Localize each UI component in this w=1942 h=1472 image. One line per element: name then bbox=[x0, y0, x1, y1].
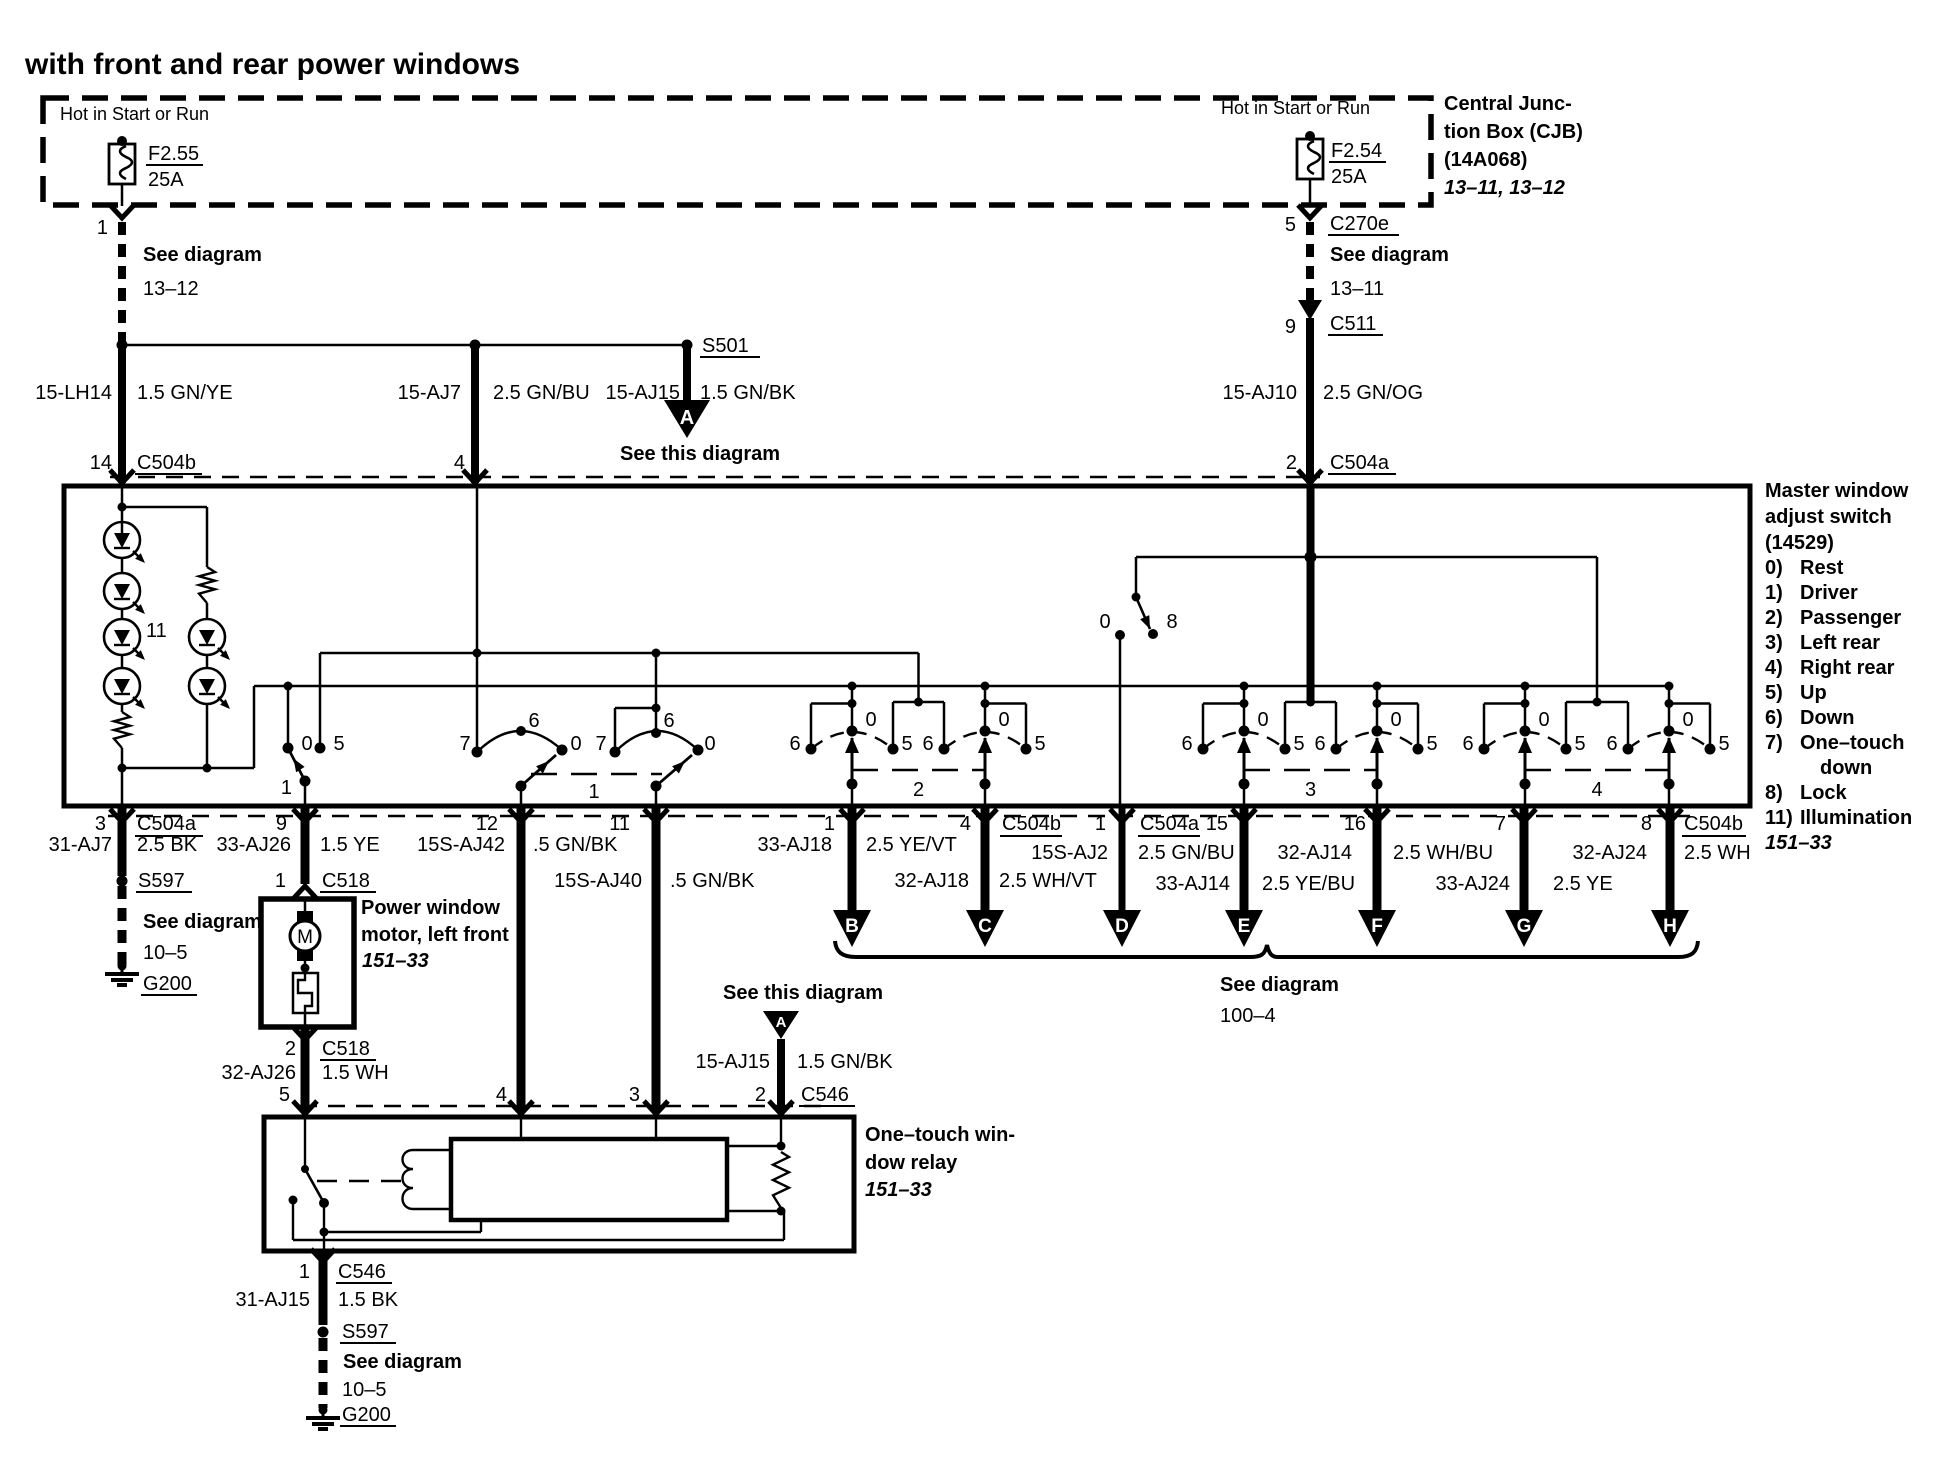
svg-text:8): 8) bbox=[1765, 782, 1783, 804]
svg-text:Down: Down bbox=[1800, 707, 1854, 729]
svg-text:1: 1 bbox=[97, 217, 108, 239]
svg-text:6: 6 bbox=[663, 710, 674, 732]
svg-text:2: 2 bbox=[755, 1084, 766, 1106]
svg-text:Central Junc-: Central Junc- bbox=[1444, 93, 1572, 115]
svg-text:C270e: C270e bbox=[1330, 213, 1389, 235]
svg-text:13–11: 13–11 bbox=[1330, 278, 1384, 300]
svg-text:2.5 BK: 2.5 BK bbox=[137, 834, 198, 856]
svg-text:11: 11 bbox=[146, 620, 167, 642]
svg-text:One–touch win-: One–touch win- bbox=[865, 1124, 1015, 1146]
svg-text:15-LH14: 15-LH14 bbox=[35, 382, 112, 404]
svg-text:adjust switch: adjust switch bbox=[1765, 506, 1892, 528]
svg-text:C546: C546 bbox=[338, 1261, 386, 1283]
svg-text:5: 5 bbox=[1718, 733, 1729, 755]
svg-text:2): 2) bbox=[1765, 607, 1783, 629]
svg-text:F: F bbox=[1371, 916, 1383, 937]
svg-text:See diagram: See diagram bbox=[143, 244, 262, 266]
svg-text:6: 6 bbox=[1606, 733, 1617, 755]
svg-text:9: 9 bbox=[1285, 316, 1296, 338]
svg-text:C518: C518 bbox=[322, 870, 370, 892]
svg-text:Driver: Driver bbox=[1800, 582, 1858, 604]
svg-text:2.5 GN/BU: 2.5 GN/BU bbox=[493, 382, 590, 404]
svg-text:8: 8 bbox=[1166, 611, 1177, 633]
svg-text:G200: G200 bbox=[143, 973, 192, 995]
svg-text:2.5 GN/BU: 2.5 GN/BU bbox=[1138, 842, 1235, 864]
svg-text:7: 7 bbox=[1495, 813, 1506, 835]
svg-text:1): 1) bbox=[1765, 582, 1783, 604]
svg-text:3: 3 bbox=[1305, 779, 1316, 801]
svg-text:13–12: 13–12 bbox=[143, 278, 199, 300]
svg-text:10–5: 10–5 bbox=[143, 942, 188, 964]
svg-text:5: 5 bbox=[1034, 733, 1045, 755]
svg-text:One–touch: One–touch bbox=[1800, 732, 1904, 754]
svg-text:12: 12 bbox=[476, 813, 498, 835]
svg-text:151–33: 151–33 bbox=[362, 950, 429, 972]
svg-text:100–4: 100–4 bbox=[1220, 1005, 1276, 1027]
svg-text:25A: 25A bbox=[1331, 166, 1367, 188]
svg-text:151–33: 151–33 bbox=[1765, 832, 1832, 854]
svg-text:15: 15 bbox=[1206, 813, 1228, 835]
svg-text:C504a: C504a bbox=[1330, 452, 1390, 474]
svg-text:6: 6 bbox=[789, 733, 800, 755]
svg-text:4): 4) bbox=[1765, 657, 1783, 679]
svg-text:C504b: C504b bbox=[137, 452, 196, 474]
svg-text:1.5 BK: 1.5 BK bbox=[338, 1289, 399, 1311]
svg-text:15-AJ10: 15-AJ10 bbox=[1223, 382, 1298, 404]
svg-text:M: M bbox=[297, 927, 313, 948]
svg-text:1: 1 bbox=[824, 813, 835, 835]
svg-text:A: A bbox=[776, 1014, 787, 1031]
svg-text:0: 0 bbox=[1538, 709, 1549, 731]
svg-text:Right rear: Right rear bbox=[1800, 657, 1895, 679]
svg-text:25A: 25A bbox=[148, 169, 184, 191]
svg-text:2.5 WH/BU: 2.5 WH/BU bbox=[1393, 842, 1493, 864]
svg-text:31-AJ7: 31-AJ7 bbox=[49, 834, 112, 856]
svg-text:Illumination: Illumination bbox=[1800, 807, 1912, 829]
svg-text:3): 3) bbox=[1765, 632, 1783, 654]
svg-text:0: 0 bbox=[998, 709, 1009, 731]
svg-text:16: 16 bbox=[1344, 813, 1366, 835]
svg-text:7): 7) bbox=[1765, 732, 1783, 754]
svg-text:32-AJ14: 32-AJ14 bbox=[1278, 842, 1353, 864]
svg-text:5: 5 bbox=[1285, 214, 1296, 236]
svg-text:(14529): (14529) bbox=[1765, 532, 1834, 554]
svg-text:See this diagram: See this diagram bbox=[620, 443, 780, 465]
svg-text:E: E bbox=[1238, 916, 1251, 937]
svg-text:1: 1 bbox=[275, 870, 286, 892]
svg-text:S597: S597 bbox=[342, 1321, 389, 1343]
svg-text:9: 9 bbox=[276, 813, 287, 835]
svg-text:4: 4 bbox=[1591, 779, 1602, 801]
svg-text:5: 5 bbox=[901, 733, 912, 755]
svg-text:S501: S501 bbox=[702, 335, 749, 357]
svg-text:5: 5 bbox=[1293, 733, 1304, 755]
svg-text:2.5 WH/VT: 2.5 WH/VT bbox=[999, 870, 1097, 892]
svg-text:1.5 WH: 1.5 WH bbox=[322, 1062, 389, 1084]
svg-text:2.5 YE/VT: 2.5 YE/VT bbox=[866, 834, 957, 856]
svg-text:Master window: Master window bbox=[1765, 480, 1909, 502]
svg-text:H: H bbox=[1663, 916, 1677, 937]
svg-text:C504a: C504a bbox=[1140, 813, 1200, 835]
svg-text:0: 0 bbox=[1257, 709, 1268, 731]
svg-text:15-AJ7: 15-AJ7 bbox=[398, 382, 461, 404]
svg-text:.5 GN/BK: .5 GN/BK bbox=[533, 834, 618, 856]
svg-text:See diagram: See diagram bbox=[143, 911, 262, 933]
svg-text:15S-AJ42: 15S-AJ42 bbox=[417, 834, 505, 856]
svg-text:2.5 YE/BU: 2.5 YE/BU bbox=[1262, 873, 1355, 895]
svg-text:6: 6 bbox=[528, 710, 539, 732]
svg-text:6): 6) bbox=[1765, 707, 1783, 729]
svg-text:0: 0 bbox=[570, 733, 581, 755]
svg-text:8: 8 bbox=[1641, 813, 1652, 835]
svg-text:2: 2 bbox=[285, 1038, 296, 1060]
svg-text:7: 7 bbox=[595, 733, 606, 755]
svg-text:Left rear: Left rear bbox=[1800, 632, 1880, 654]
svg-text:33-AJ24: 33-AJ24 bbox=[1436, 873, 1511, 895]
svg-text:A: A bbox=[680, 407, 694, 429]
svg-text:F2.55: F2.55 bbox=[148, 143, 199, 165]
svg-text:14: 14 bbox=[90, 452, 112, 474]
svg-text:F2.54: F2.54 bbox=[1331, 140, 1382, 162]
svg-text:C: C bbox=[978, 916, 992, 937]
svg-text:See this diagram: See this diagram bbox=[723, 982, 883, 1004]
svg-text:6: 6 bbox=[1181, 733, 1192, 755]
svg-text:D: D bbox=[1115, 916, 1129, 937]
svg-text:15-AJ15: 15-AJ15 bbox=[696, 1051, 771, 1073]
svg-text:5: 5 bbox=[1426, 733, 1437, 755]
svg-text:32-AJ18: 32-AJ18 bbox=[895, 870, 970, 892]
svg-text:C518: C518 bbox=[322, 1038, 370, 1060]
svg-text:33-AJ18: 33-AJ18 bbox=[758, 834, 833, 856]
svg-text:1: 1 bbox=[588, 781, 599, 803]
svg-text:Up: Up bbox=[1800, 682, 1827, 704]
svg-text:0: 0 bbox=[704, 733, 715, 755]
svg-text:Hot in Start or Run: Hot in Start or Run bbox=[1221, 98, 1370, 118]
svg-text:Hot in Start or Run: Hot in Start or Run bbox=[60, 104, 209, 124]
svg-text:6: 6 bbox=[922, 733, 933, 755]
svg-text:1: 1 bbox=[299, 1261, 310, 1283]
svg-text:32-AJ26: 32-AJ26 bbox=[222, 1062, 297, 1084]
svg-text:1.5 YE: 1.5 YE bbox=[320, 834, 380, 856]
svg-text:3: 3 bbox=[95, 813, 106, 835]
svg-text:33-AJ26: 33-AJ26 bbox=[217, 834, 292, 856]
svg-text:dow relay: dow relay bbox=[865, 1152, 958, 1174]
svg-text:15S-AJ40: 15S-AJ40 bbox=[554, 870, 642, 892]
svg-text:Passenger: Passenger bbox=[1800, 607, 1901, 629]
svg-text:See diagram: See diagram bbox=[1330, 244, 1449, 266]
svg-text:1: 1 bbox=[281, 777, 292, 799]
svg-text:4: 4 bbox=[496, 1084, 507, 1106]
svg-text:33-AJ14: 33-AJ14 bbox=[1156, 873, 1231, 895]
svg-text:3: 3 bbox=[629, 1084, 640, 1106]
svg-text:5: 5 bbox=[1574, 733, 1585, 755]
svg-text:C504b: C504b bbox=[1002, 813, 1061, 835]
svg-text:0: 0 bbox=[1682, 709, 1693, 731]
svg-text:See diagram: See diagram bbox=[1220, 974, 1339, 996]
svg-text:5): 5) bbox=[1765, 682, 1783, 704]
svg-text:.5 GN/BK: .5 GN/BK bbox=[670, 870, 755, 892]
svg-text:32-AJ24: 32-AJ24 bbox=[1573, 842, 1648, 864]
svg-text:0: 0 bbox=[301, 733, 312, 755]
svg-text:1: 1 bbox=[1095, 813, 1106, 835]
svg-text:tion Box (CJB): tion Box (CJB) bbox=[1444, 121, 1583, 143]
svg-text:2.5 WH: 2.5 WH bbox=[1684, 842, 1751, 864]
svg-text:2.5 YE: 2.5 YE bbox=[1553, 873, 1613, 895]
svg-text:C511: C511 bbox=[1330, 313, 1376, 335]
svg-text:(14A068): (14A068) bbox=[1444, 149, 1527, 171]
svg-text:13–11, 13–12: 13–11, 13–12 bbox=[1444, 177, 1565, 199]
svg-text:11): 11) bbox=[1765, 807, 1793, 829]
svg-text:Lock: Lock bbox=[1800, 782, 1848, 804]
svg-text:G200: G200 bbox=[342, 1404, 391, 1426]
svg-text:0: 0 bbox=[1390, 709, 1401, 731]
svg-text:15-AJ15: 15-AJ15 bbox=[606, 382, 681, 404]
svg-text:G: G bbox=[1517, 916, 1532, 937]
svg-text:6: 6 bbox=[1314, 733, 1325, 755]
svg-text:1.5 GN/YE: 1.5 GN/YE bbox=[137, 382, 233, 404]
svg-text:6: 6 bbox=[1462, 733, 1473, 755]
svg-text:motor, left front: motor, left front bbox=[361, 924, 509, 946]
svg-text:0): 0) bbox=[1765, 557, 1783, 579]
svg-text:C504b: C504b bbox=[1684, 813, 1743, 835]
svg-text:Rest: Rest bbox=[1800, 557, 1844, 579]
svg-text:2.5 GN/OG: 2.5 GN/OG bbox=[1323, 382, 1423, 404]
svg-text:10–5: 10–5 bbox=[342, 1379, 387, 1401]
svg-text:C546: C546 bbox=[801, 1084, 849, 1106]
svg-text:with front and rear power wind: with front and rear power windows bbox=[24, 48, 520, 81]
svg-text:11: 11 bbox=[609, 813, 630, 835]
svg-text:0: 0 bbox=[865, 709, 876, 731]
svg-text:5: 5 bbox=[333, 733, 344, 755]
svg-text:0: 0 bbox=[1099, 611, 1110, 633]
svg-text:2: 2 bbox=[1286, 452, 1297, 474]
svg-text:5: 5 bbox=[279, 1084, 290, 1106]
svg-text:Power window: Power window bbox=[361, 897, 500, 919]
svg-text:See diagram: See diagram bbox=[343, 1351, 462, 1373]
svg-text:S597: S597 bbox=[138, 870, 185, 892]
svg-text:151–33: 151–33 bbox=[865, 1179, 932, 1201]
svg-text:4: 4 bbox=[960, 813, 971, 835]
svg-text:1.5 GN/BK: 1.5 GN/BK bbox=[700, 382, 796, 404]
svg-text:31-AJ15: 31-AJ15 bbox=[236, 1289, 311, 1311]
svg-text:1.5 GN/BK: 1.5 GN/BK bbox=[797, 1051, 893, 1073]
svg-text:15S-AJ2: 15S-AJ2 bbox=[1031, 842, 1108, 864]
svg-text:B: B bbox=[845, 916, 859, 937]
svg-text:down: down bbox=[1820, 757, 1872, 779]
svg-text:7: 7 bbox=[459, 733, 470, 755]
svg-text:C504a: C504a bbox=[137, 813, 197, 835]
svg-text:2: 2 bbox=[913, 779, 924, 801]
